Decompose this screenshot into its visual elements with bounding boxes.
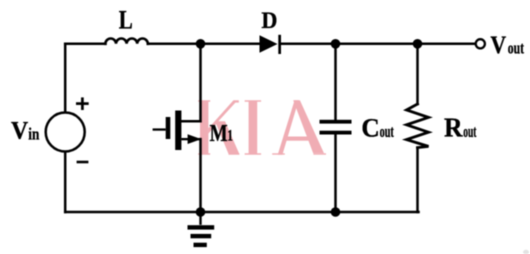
- inductor L: [105, 38, 147, 43]
- capacitor Cout plates: [320, 120, 352, 135]
- wire MOSFET source vertical: [199, 139, 202, 212]
- wire inductor to diode: [148, 43, 260, 46]
- svg-text:V: V: [490, 30, 506, 59]
- svg-text:out: out: [508, 38, 524, 57]
- svg-text:C: C: [361, 114, 379, 143]
- svg-text:out: out: [380, 122, 394, 141]
- wire left rail upper: [64, 44, 67, 113]
- wire bottom rail: [65, 211, 418, 214]
- svg-text:L: L: [119, 4, 133, 34]
- wire capacitor bottom: [334, 134, 337, 212]
- wire left rail lower: [64, 152, 67, 212]
- watermark KIA letter K: [198, 100, 239, 154]
- Vin minus sign: [77, 161, 89, 164]
- svg-text:in: in: [28, 124, 39, 143]
- Vin plus sign: [76, 97, 89, 110]
- channel bar: [175, 111, 181, 151]
- corner smudge: [523, 250, 529, 254]
- source lead: [181, 138, 200, 140]
- wire resistor bottom: [416, 148, 419, 212]
- svg-text:V: V: [11, 116, 28, 144]
- node at D-C junction: [331, 39, 341, 49]
- node at R top junction: [413, 39, 423, 49]
- source arrow: [188, 134, 202, 144]
- svg-text:M: M: [210, 120, 228, 147]
- gate lead: [153, 128, 166, 130]
- wire capacitor top: [334, 44, 337, 120]
- watermark KIA letter I: [245, 100, 261, 154]
- transistor M1 (NMOS): [153, 111, 202, 151]
- svg-text:out: out: [463, 122, 476, 141]
- wire MOSFET drain vertical: [181, 44, 200, 121]
- watermark KIA letter A: [272, 100, 326, 154]
- diode D: [260, 35, 282, 54]
- gate bar: [166, 117, 171, 139]
- svg-text:R: R: [444, 112, 464, 143]
- node at C bottom junction: [331, 207, 341, 217]
- wire resistor top: [416, 44, 419, 104]
- ground: [188, 212, 215, 247]
- output terminal circle: [476, 39, 485, 48]
- svg-text:1: 1: [227, 128, 233, 145]
- node at ground junction: [196, 207, 206, 217]
- wire top rail left segment: [65, 43, 105, 46]
- node at L-D junction: [196, 39, 206, 49]
- voltage source Vin circle: [46, 113, 85, 152]
- resistor Rout zigzag: [407, 104, 429, 148]
- svg-text:D: D: [261, 8, 277, 33]
- wire diode cathode to output node: [281, 43, 476, 46]
